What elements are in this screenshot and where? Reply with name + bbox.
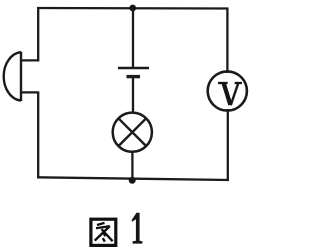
speaker stub bottom	[21, 91, 39, 93]
wire right upper	[226, 8, 228, 74]
speaker flat edge	[20, 52, 22, 101]
voltmeter V label	[218, 83, 242, 105]
caption glyph tu: winter stroke 1	[97, 223, 105, 225]
wire lamp to bottom	[131, 152, 133, 181]
caption glyph tu: winter stroke 2	[96, 226, 110, 228]
node top junction	[129, 5, 136, 12]
caption glyph tu: square frame	[91, 219, 116, 245]
wire middle upper	[132, 8, 134, 68]
lamp L1 cross stroke 1	[119, 118, 147, 146]
voltmeter V circle	[208, 71, 247, 110]
caption glyph tu: dot 1	[104, 233, 106, 236]
wire top	[37, 7, 229, 10]
wire left lower	[37, 92, 39, 179]
battery cell: long plate	[118, 67, 149, 70]
wire right lower	[227, 109, 229, 181]
wire bottom	[37, 177, 229, 180]
caption number 1	[132, 213, 143, 244]
lamp L1 cross stroke 2	[119, 118, 147, 146]
lamp L1 circle	[113, 113, 152, 152]
speaker stub top	[21, 59, 39, 61]
wire battery to lamp	[132, 77, 134, 113]
speaker dome arc	[4, 52, 21, 100]
node bottom junction	[129, 177, 136, 184]
wire left upper	[37, 7, 39, 62]
caption glyph tu: dot 2	[103, 238, 105, 241]
battery cell: short plate	[127, 75, 141, 78]
caption glyph tu: winter stroke 3	[102, 229, 113, 241]
